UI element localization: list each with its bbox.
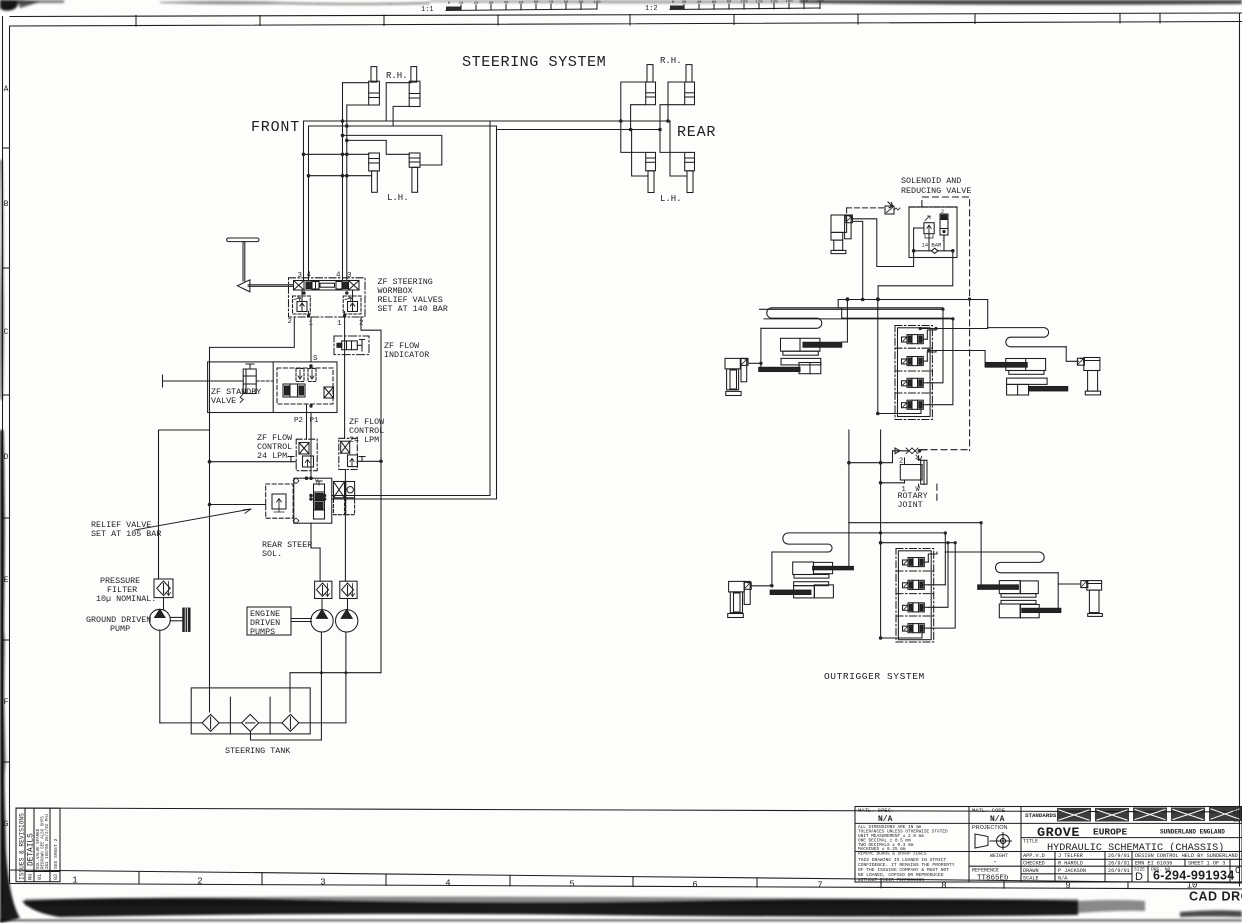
svg-text:REDRAWN SEE ALSO SHTS: REDRAWN SEE ALSO SHTS bbox=[42, 816, 46, 869]
outrigger jack cylinder far right lower bbox=[1087, 581, 1103, 617]
svg-text:STANDARDS: STANDARDS bbox=[1025, 812, 1057, 819]
wire P1 line down bbox=[310, 413, 312, 479]
wire flow control left T line to rail bbox=[210, 461, 297, 463]
svg-text:EUROPE: EUROPE bbox=[1093, 827, 1128, 838]
bottom band column dividers bbox=[139, 872, 1128, 889]
tank filter diamond right bbox=[282, 714, 346, 731]
svg-text:R.H.: R.H. bbox=[386, 71, 408, 81]
svg-text:SUNDERLAND ENGLAND: SUNDERLAND ENGLAND bbox=[1160, 829, 1225, 836]
rotary joint ports check symbols bbox=[893, 448, 922, 460]
junction dots return manifold bbox=[320, 671, 348, 674]
svg-text:6: 6 bbox=[692, 880, 697, 890]
svg-text:N/A: N/A bbox=[1058, 876, 1068, 882]
svg-text:SOL.: SOL. bbox=[262, 549, 282, 559]
svg-text:N/A: N/A bbox=[878, 815, 893, 824]
tank breather diamond middle bbox=[219, 714, 282, 731]
upper right serpentine bbox=[988, 328, 1066, 347]
svg-text:A: A bbox=[4, 85, 9, 94]
svg-text:SEE SHEET 2: SEE SHEET 2 bbox=[53, 838, 59, 869]
wormbox valve dash-dot enclosure bbox=[289, 278, 366, 317]
svg-text:DETAILS: DETAILS bbox=[28, 833, 36, 866]
top border column ticks bbox=[136, 14, 1160, 27]
upper outrigger bus 2 serpentine top bbox=[772, 307, 943, 309]
relief valve leader arrow bbox=[135, 509, 251, 530]
pressure reducing element bbox=[924, 223, 934, 234]
relief valve label bbox=[91, 520, 161, 539]
svg-text:FRONT: FRONT bbox=[251, 119, 300, 136]
junction dots wormbox bbox=[302, 291, 348, 317]
svg-text:26/9/91: 26/9/91 bbox=[1108, 861, 1130, 867]
junction dots front group bbox=[302, 119, 349, 177]
svg-text:2&3 160786 26/2/92 PHJ: 2&3 160786 26/2/92 PHJ bbox=[45, 813, 50, 869]
svg-text:Y: Y bbox=[315, 479, 319, 486]
svg-text:PUMP: PUMP bbox=[110, 624, 130, 634]
outrigger feed cylinder top left bbox=[831, 215, 851, 254]
wire front to LH left cylinder rod port bbox=[309, 175, 372, 177]
ground pump drive pulley bbox=[170, 608, 190, 631]
scale ruler 1:2 bbox=[645, 0, 824, 13]
wire front RH left rod port bbox=[343, 82, 369, 84]
wire right pump filter line up bbox=[344, 470, 346, 582]
pressure filter label bbox=[96, 576, 156, 604]
right edge partial cell bbox=[1233, 808, 1242, 876]
title block row1 texts bbox=[858, 807, 1057, 824]
solenoid cartridge valve 2 lower bank bbox=[903, 580, 929, 589]
internal gallery line with check bbox=[914, 250, 953, 252]
wormbox internal drop wires bbox=[302, 290, 353, 317]
cylinder rear R.H. right bbox=[685, 65, 695, 105]
svg-text:10µ NOMINAL.: 10µ NOMINAL. bbox=[96, 594, 156, 604]
svg-text:7: 7 bbox=[817, 881, 822, 891]
relief valve dashed box bbox=[266, 484, 293, 518]
rotary joint port labels bbox=[899, 458, 921, 495]
outrigger jack cylinder far left lower bbox=[728, 581, 751, 617]
cylinder rear L.H. right bbox=[685, 152, 695, 192]
cylinder front L.H. left bbox=[369, 153, 380, 192]
svg-text:B: B bbox=[4, 200, 9, 209]
svg-text:2: 2 bbox=[197, 877, 202, 887]
svg-text:SOL.VALVE SPARKE: SOL.VALVE SPARKE bbox=[37, 828, 41, 869]
wire front to LH left cylinder body bbox=[304, 153, 369, 155]
svg-text:L.H.: L.H. bbox=[660, 194, 682, 204]
solenoid and reducing valve label bbox=[901, 176, 971, 196]
lower bus 2 bbox=[788, 532, 945, 534]
junction dot T return bbox=[379, 460, 383, 464]
wire rear loop left vertical pair down to steering valve bbox=[489, 121, 491, 496]
steering tank bbox=[191, 688, 310, 734]
ground driven pump bbox=[149, 430, 170, 723]
left border zone letters A-G bbox=[4, 85, 9, 829]
wire rotary port 1 bbox=[881, 482, 905, 484]
wire rotary long line 2 bbox=[880, 430, 882, 533]
wire cylinder valve to reducing valve supply bbox=[852, 219, 913, 267]
bus junction dots upper left bbox=[846, 298, 880, 302]
wire P2 line down bbox=[306, 404, 308, 439]
svg-text:COA: COA bbox=[1233, 818, 1242, 824]
T symbol left flow control bbox=[288, 457, 294, 462]
svg-text:24 LPM: 24 LPM bbox=[349, 435, 379, 445]
svg-text:10: 10 bbox=[459, 2, 464, 6]
outrigger cylinder group lower left : extend cylinder bbox=[793, 562, 854, 578]
reducing valve solid box bbox=[909, 207, 957, 258]
svg-text:-: - bbox=[993, 859, 997, 867]
svg-text:GROVE: GROVE bbox=[1037, 825, 1080, 840]
cylinder front L.H. right bbox=[409, 153, 420, 192]
ZF standby valve spool group bbox=[277, 364, 334, 407]
svg-text:SET AT 105 BAR: SET AT 105 BAR bbox=[91, 529, 161, 539]
upper bus 2 right run bbox=[760, 308, 944, 310]
wire front RH right rod port bbox=[386, 83, 411, 121]
ZF flow indicator bbox=[334, 336, 369, 355]
lower bus 3 bbox=[881, 542, 956, 544]
svg-text:OUTRIGGER SYSTEM: OUTRIGGER SYSTEM bbox=[824, 671, 925, 682]
svg-text:MATL. CODE: MATL. CODE bbox=[972, 807, 1006, 814]
svg-text:PROJECTION: PROJECTION bbox=[972, 825, 1007, 831]
svg-text:D: D bbox=[1135, 871, 1143, 883]
rotary joint dashed drain bbox=[921, 450, 970, 504]
svg-text:TITLE: TITLE bbox=[1023, 839, 1038, 845]
svg-text:ISSUES & REVISIONS: ISSUES & REVISIONS bbox=[19, 813, 26, 880]
upper bus 3 bbox=[764, 318, 953, 320]
wire valve3 to right drop bbox=[927, 309, 943, 383]
engine driven pump right bbox=[336, 599, 358, 723]
svg-text:26/9/91: 26/9/91 bbox=[1108, 853, 1130, 859]
wire cylinder valve line 2 to bus bbox=[852, 221, 862, 299]
wire rear steer valve down to engine filter bbox=[311, 523, 320, 581]
cylinder rear L.H. left bbox=[646, 152, 656, 192]
outrigger cylinder group lower right : retract cylinder bbox=[999, 600, 1061, 617]
wormbox port labels 3 4 4 3 bbox=[298, 272, 353, 281]
engine driven pump left bbox=[311, 599, 333, 741]
wire rotary port 2 bbox=[849, 451, 893, 463]
jack pilot valve lower left bbox=[744, 582, 751, 589]
junction dots rail R1 bbox=[208, 460, 212, 506]
bus junction hop marks upper bbox=[919, 297, 972, 352]
svg-text:REMOVE BURRS & SHARP EDGES: REMOVE BURRS & SHARP EDGES bbox=[858, 852, 927, 857]
weight cell bbox=[972, 853, 1009, 883]
lower left serpentine descender bbox=[770, 552, 772, 585]
svg-text:CHECKED: CHECKED bbox=[1023, 861, 1045, 867]
left border inner line bbox=[9, 26, 11, 882]
wire jack valve to serpentine lower left bbox=[751, 585, 772, 587]
lower bus 3 right to serpentine bbox=[945, 533, 994, 552]
svg-text:2: 2 bbox=[941, 209, 944, 215]
outrigger cylinder group upper left : extend cylinder bbox=[781, 338, 842, 355]
P2 P1 port labels bbox=[294, 417, 319, 425]
svg-text:No.: No. bbox=[27, 870, 34, 880]
upper outrigger bus 1 bbox=[838, 299, 988, 301]
wire front L3 to LH right cylinder bbox=[343, 135, 442, 165]
svg-text:TT865Eb: TT865Eb bbox=[977, 875, 1009, 883]
wire front feed L1 bbox=[304, 120, 491, 122]
svg-text:6-294-991934: 6-294-991934 bbox=[1153, 869, 1234, 883]
return rail down bbox=[380, 461, 382, 672]
wire lower valve elbows right bbox=[928, 552, 937, 562]
svg-text:2: 2 bbox=[288, 318, 293, 326]
svg-text:REDUCING VALVE: REDUCING VALVE bbox=[901, 186, 971, 196]
lower left serpentine bbox=[772, 533, 832, 552]
solenoid cartridge valve 4 upper bank bbox=[902, 400, 928, 409]
engine pump filter right bbox=[340, 581, 357, 598]
solenoid pilot symbol top left bbox=[885, 202, 900, 214]
svg-text:N/A: N/A bbox=[990, 815, 1005, 824]
svg-text:5: 5 bbox=[569, 880, 574, 890]
pump return drop into tank bottom bbox=[251, 731, 322, 740]
upper left serpentine descender bbox=[759, 328, 761, 369]
wire cylinder to jack valve lower right bbox=[1058, 583, 1081, 585]
svg-text:APP.V.D: APP.V.D bbox=[1023, 853, 1045, 859]
engine pump filter left bbox=[315, 581, 332, 598]
ZF flow control right label bbox=[349, 417, 385, 445]
rear steer sol label bbox=[262, 540, 312, 559]
outrigger cylinder group upper right : extend cylinder bbox=[985, 359, 1046, 375]
wire steering column W2 bbox=[308, 126, 310, 281]
solenoid cartridge element bbox=[940, 214, 948, 235]
cylinder rear R.H. left bbox=[646, 65, 656, 105]
tank filter diamond left bbox=[160, 714, 219, 731]
title block frame bbox=[855, 807, 1242, 883]
wire rotary line extension to lower-left bar bbox=[848, 523, 850, 568]
jack pilot valve lower right bbox=[1081, 581, 1088, 588]
T symbol right flow control bbox=[359, 457, 365, 462]
left border outer line bbox=[2, 17, 4, 906]
svg-text:SOLENOID AND: SOLENOID AND bbox=[901, 176, 961, 186]
svg-text:02: 02 bbox=[53, 874, 59, 880]
svg-text:DESIGN CONTROL HELD BY SUNDERL: DESIGN CONTROL HELD BY SUNDERLAND E bbox=[1135, 853, 1242, 859]
wire lower bank bottom feed bbox=[879, 541, 922, 640]
svg-text:F: F bbox=[4, 698, 9, 707]
outrigger jack cylinder far right upper bbox=[1084, 358, 1101, 395]
svg-text:JOINT: JOINT bbox=[898, 500, 923, 510]
svg-text:P2: P2 bbox=[294, 417, 303, 425]
solenoid cartridge valve 1 upper bank bbox=[902, 335, 928, 344]
bottom inner margin line above title strip bbox=[16, 808, 1242, 812]
ZF flow control left valve bbox=[296, 439, 317, 471]
svg-text:R HAROLD: R HAROLD bbox=[1058, 861, 1083, 867]
svg-text:3: 3 bbox=[347, 272, 352, 280]
svg-text:REFERENCE: REFERENCE bbox=[972, 868, 999, 874]
lower right serpentine bbox=[995, 552, 1059, 573]
cylinder front R.H. right bbox=[409, 67, 420, 107]
lower right serpentine descender bbox=[1058, 573, 1061, 611]
svg-text:L.H.: L.H. bbox=[387, 193, 409, 203]
upper right bus 2 bbox=[929, 351, 986, 363]
svg-text:C: C bbox=[4, 328, 9, 337]
title row bbox=[1023, 839, 1224, 855]
bottom number band lower line bbox=[10, 884, 1242, 890]
bottom number band upper line bbox=[10, 870, 1242, 883]
svg-text:PUMPS: PUMPS bbox=[250, 627, 275, 637]
svg-text:WITHOUT THEIR PERMISSION: WITHOUT THEIR PERMISSION bbox=[858, 877, 924, 883]
solenoid cartridge valve 3 upper bank bbox=[902, 378, 928, 387]
svg-text:C: C bbox=[1235, 866, 1241, 876]
lower bus1 drop to right bar bbox=[980, 523, 982, 586]
upper right bus to serpentine bbox=[920, 300, 988, 329]
pilot valve on cylinder bbox=[846, 215, 853, 223]
confidence note text bbox=[858, 857, 955, 883]
wire wormbox port1 right line down through indicator bbox=[344, 317, 346, 438]
junction dots lower bank bbox=[944, 521, 983, 544]
ZF flow control right valve bbox=[339, 438, 358, 469]
wormbox valve spool body bbox=[294, 281, 360, 291]
svg-text:SHEET 1 OF 3: SHEET 1 OF 3 bbox=[1188, 861, 1225, 867]
svg-text:P JACKSON: P JACKSON bbox=[1058, 868, 1086, 874]
svg-text:DRAWN: DRAWN bbox=[1023, 868, 1039, 874]
wormbox port labels 2 1 1 2 bbox=[288, 318, 364, 328]
rotary joint body bbox=[900, 456, 927, 487]
jack pilot valve upper left bbox=[741, 358, 748, 365]
scale ruler 1:1 bbox=[421, 1, 601, 14]
wire rear feed upper bus bbox=[490, 120, 670, 122]
rotary joint label bbox=[898, 491, 928, 510]
bottom band grid numbers bbox=[72, 876, 1197, 892]
svg-text:CAD DRG: CAD DRG bbox=[1189, 890, 1242, 904]
wire valve2 elbow riser bbox=[927, 351, 936, 362]
GROVE EUROPE banner bbox=[1037, 825, 1225, 840]
projection cell bbox=[972, 825, 1012, 850]
wire rotary joint line from bank bbox=[848, 430, 850, 523]
svg-text:J TELFER: J TELFER bbox=[1058, 853, 1083, 859]
svg-text:4: 4 bbox=[307, 272, 312, 280]
wire front RH right body port bbox=[393, 106, 409, 126]
dashed pilot line cylinder to solenoid bbox=[847, 207, 885, 209]
wire flow control right T line to return rail bbox=[357, 460, 381, 462]
svg-text:INDICATOR: INDICATOR bbox=[384, 350, 429, 360]
left border row ticks bbox=[3, 148, 10, 762]
wire valve4 to right drop bbox=[927, 318, 953, 405]
wormbox relief valve left bbox=[293, 296, 311, 314]
wire steering column W1 bbox=[303, 121, 305, 281]
svg-text:VALVE: VALVE bbox=[211, 396, 236, 406]
return manifold line to tank bbox=[290, 673, 381, 712]
bus1 to bus2 link bbox=[837, 300, 839, 308]
svg-text:1:2: 1:2 bbox=[645, 5, 658, 13]
svg-text:01: 01 bbox=[37, 874, 43, 880]
wire reducing valve outlet to bank feed bbox=[878, 251, 953, 300]
svg-text:SCALE: SCALE bbox=[1023, 876, 1039, 882]
junction dots rear steer valve bbox=[305, 476, 327, 500]
wire rear LH right cylinder connections bbox=[660, 130, 685, 153]
wormbox relief valve right bbox=[343, 296, 361, 314]
wire rear LH left cylinder connections bbox=[621, 121, 646, 152]
ZF standby valve label bbox=[211, 387, 261, 406]
ZF steering wormbox valve label bbox=[378, 277, 448, 314]
svg-text:R.H.: R.H. bbox=[660, 56, 682, 66]
junction dots rear group bbox=[619, 119, 670, 131]
ground driven pump label bbox=[86, 615, 151, 634]
ZF flow control left label bbox=[257, 433, 293, 461]
lower outrigger bus 1 bbox=[849, 522, 981, 524]
upper right serpentine descender bbox=[1066, 347, 1078, 362]
outrigger cylinder group lower left : retract cylinder bbox=[770, 582, 833, 598]
wire bank supply vertical bbox=[876, 297, 921, 415]
svg-text:4: 4 bbox=[445, 879, 450, 889]
dashed enclosure right bbox=[922, 197, 970, 451]
wire wormbox port1 left S line bbox=[310, 317, 312, 362]
svg-text:1: 1 bbox=[72, 876, 77, 886]
solenoid cartridge valve 1 lower bank bbox=[903, 558, 929, 567]
wire steering loop pair into rear steer valve bbox=[332, 495, 490, 497]
outrigger cylinder group lower right : extend cylinder bbox=[978, 581, 1039, 598]
svg-text:14 BAR: 14 BAR bbox=[922, 242, 943, 249]
wire rail R1 to relief valve bbox=[210, 504, 266, 506]
wire rear feed lower bus bbox=[497, 129, 661, 131]
wire steering column W3 bbox=[342, 83, 344, 281]
svg-text:D: D bbox=[4, 453, 9, 462]
outrigger jack cylinder far left upper bbox=[725, 358, 747, 395]
wire front RH left body port bbox=[347, 104, 369, 106]
cylinder front R.H. left bbox=[369, 67, 380, 105]
svg-text:STEERING SYSTEM: STEERING SYSTEM bbox=[462, 53, 606, 71]
svg-text:24 LPM: 24 LPM bbox=[257, 451, 287, 461]
svg-text:1: 1 bbox=[337, 320, 342, 328]
svg-text:3: 3 bbox=[298, 272, 303, 280]
rear steer valve main block bbox=[293, 478, 332, 524]
svg-text:REAR: REAR bbox=[677, 124, 716, 141]
wire valve1 elbow to bus bbox=[927, 329, 936, 340]
wire rear RH left cylinder connections bbox=[621, 82, 646, 121]
outrigger cylinder group upper left : retract cylinder bbox=[759, 358, 821, 373]
solenoid cartridge valve 4 lower bank bbox=[903, 624, 929, 633]
ZF flow indicator label bbox=[384, 341, 429, 360]
upper bus 3 bbox=[842, 317, 953, 319]
engine driven pumps label box bbox=[247, 607, 312, 637]
rail R1 jog to rail R2 bbox=[159, 430, 210, 579]
solenoid valve bank upper : enclosure bbox=[895, 326, 932, 420]
standards crossed stamps bbox=[1057, 807, 1242, 822]
jack pilot valve upper right bbox=[1077, 358, 1084, 365]
svg-text:ERN EI 61036: ERN EI 61036 bbox=[1135, 861, 1172, 867]
wire rear RH right cylinder connections bbox=[668, 82, 686, 121]
svg-text:MATL. SPEC.: MATL. SPEC. bbox=[858, 807, 894, 814]
svg-text:1:1: 1:1 bbox=[421, 6, 434, 14]
svg-text:26/9/91: 26/9/91 bbox=[1108, 868, 1130, 874]
upper left serpentine bbox=[761, 308, 822, 329]
wire wormbox port2 left to rail bbox=[210, 317, 295, 348]
rear steer valve pilot squares right bbox=[334, 482, 355, 515]
solenoid valve bank lower : enclosure bbox=[896, 549, 934, 643]
wire wormbox port2 right to return rail bbox=[361, 317, 381, 461]
top border inner line bbox=[10, 22, 1242, 27]
top border outer line bbox=[10, 13, 1242, 17]
ZF standby valve outer box bbox=[208, 362, 337, 413]
svg-text:2: 2 bbox=[899, 458, 903, 466]
revisions block rotated headers bbox=[19, 813, 60, 880]
svg-text:4: 4 bbox=[336, 272, 341, 280]
scan smudge top edge bbox=[0, 0, 1242, 11]
ZF standby valve T port stub bbox=[163, 375, 244, 387]
scan smudge bottom edge bbox=[0, 897, 1242, 922]
wire front feed L2 bbox=[309, 125, 497, 127]
wire steering column W4 bbox=[346, 105, 348, 281]
right border line bbox=[1239, 13, 1241, 886]
left rail R1 vertical bbox=[209, 347, 211, 712]
ZF standby valve solenoid bbox=[240, 364, 273, 403]
tolerance note text bbox=[858, 825, 948, 857]
pressure filter symbol bbox=[154, 579, 173, 598]
approval rows bbox=[1023, 853, 1242, 882]
revisions block bottom left bbox=[16, 808, 60, 882]
solenoid cartridge valve 2 upper bank bbox=[902, 357, 928, 366]
outrigger cylinder group upper right : retract cylinder bbox=[1007, 378, 1068, 395]
steering wheel bbox=[227, 238, 294, 292]
internal link lines bbox=[928, 234, 930, 251]
scan smudge left edge bbox=[0, 160, 20, 923]
ZF standby valve inner divider box bbox=[272, 362, 274, 413]
solenoid cartridge valve 3 lower bank bbox=[903, 603, 929, 612]
svg-text:STEERING TANK: STEERING TANK bbox=[225, 746, 291, 756]
svg-text:SET AT 140 BAR: SET AT 140 BAR bbox=[378, 304, 448, 314]
